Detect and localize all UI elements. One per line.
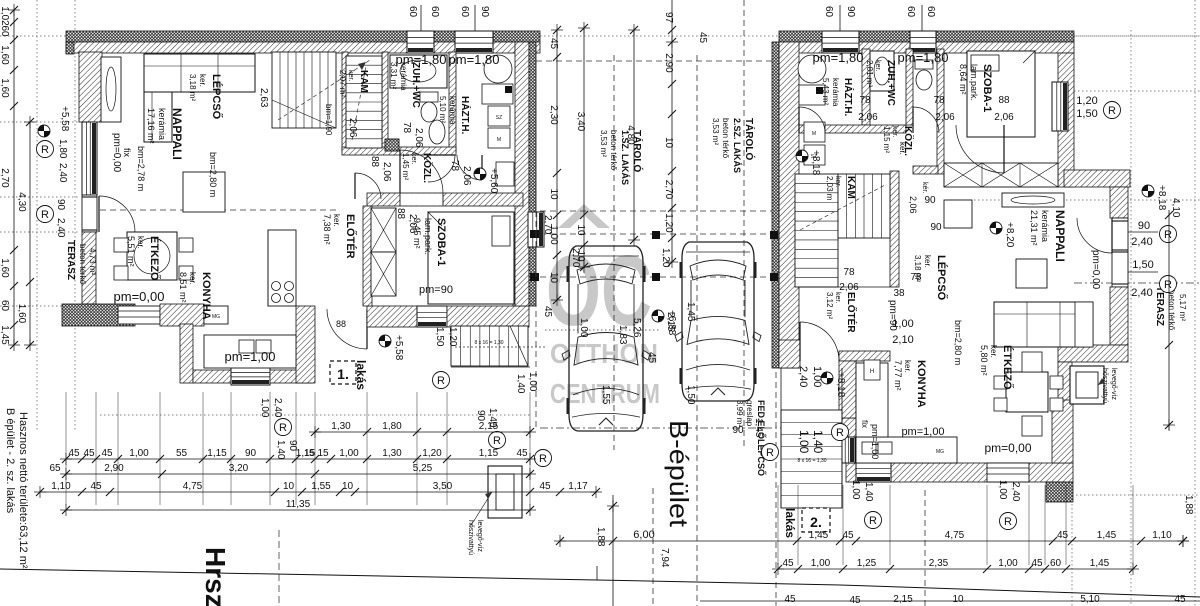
svg-text:2,07 m²: 2,07 m²: [338, 70, 347, 97]
svg-text:1,00: 1,00: [259, 398, 270, 418]
svg-text:levegő-víz: levegő-víz: [476, 520, 483, 552]
svg-text:88: 88: [998, 95, 1010, 106]
svg-text:10: 10: [283, 481, 295, 492]
svg-text:1,50: 1,50: [1132, 259, 1153, 271]
svg-text:60: 60: [0, 25, 10, 37]
coffee table right unit: [1016, 259, 1047, 288]
svg-text:90: 90: [930, 222, 942, 233]
svg-text:10: 10: [575, 224, 586, 236]
svg-text:2,35: 2,35: [929, 558, 949, 569]
svg-text:R: R: [869, 515, 877, 527]
door arc eloter right entrance: [800, 322, 839, 361]
svg-text:2,03 m: 2,03 m: [825, 176, 834, 201]
svg-text:R: R: [539, 453, 547, 465]
svg-text:7,38 m²: 7,38 m²: [322, 214, 332, 245]
svg-text:5,10 m²: 5,10 m²: [438, 96, 447, 123]
svg-text:1,50: 1,50: [685, 385, 696, 405]
wall: right unit east upper (szoba): [1058, 53, 1074, 187]
kitchen right sink: [862, 442, 876, 454]
svg-text:lam.park.: lam.park.: [423, 218, 433, 255]
dim row B right: [778, 568, 1133, 570]
svg-text:2,70: 2,70: [570, 248, 581, 268]
svg-text:5,17 m²: 5,17 m²: [1178, 294, 1187, 321]
svg-text:R: R: [41, 209, 49, 221]
svg-text:1,45: 1,45: [753, 418, 764, 438]
svg-text:4,75: 4,75: [945, 530, 965, 541]
svg-text:KAM: KAM: [358, 70, 369, 93]
svg-text:90: 90: [1138, 220, 1150, 232]
svg-text:M: M: [497, 137, 501, 143]
svg-text:78: 78: [449, 160, 460, 172]
svg-text:90: 90: [845, 6, 856, 18]
stair: left unit lower flight: [272, 52, 336, 128]
svg-text:pm=1,00: pm=1,00: [870, 424, 880, 459]
door: terasz sliding 1.00/2.40: [118, 306, 160, 324]
svg-text:2,40: 2,40: [1131, 287, 1152, 299]
svg-text:1,40: 1,40: [863, 482, 874, 502]
stair: right unit flight B: [838, 174, 890, 238]
window: left west fixed glazing: [82, 122, 97, 195]
svg-text:2.SZ. LAKÁS: 2.SZ. LAKÁS: [732, 118, 742, 173]
R circle fed.elolepcso: [762, 444, 779, 461]
dim row E left: [66, 509, 530, 511]
window: right fix pm=1.00: [841, 437, 855, 463]
svg-text:Hrsz.: Hrsz.: [200, 547, 231, 606]
svg-text:2,06: 2,06: [347, 118, 358, 138]
door arc nappali-terasz swing: [1077, 218, 1112, 253]
svg-text:HÁZT.H.: HÁZT.H.: [459, 96, 472, 135]
svg-text:90: 90: [479, 6, 490, 18]
svg-text:60: 60: [429, 6, 440, 18]
black posts on east wall: [530, 230, 539, 238]
right edge door dims horizontal: [1128, 231, 1158, 233]
svg-text:ker.: ker.: [410, 153, 417, 164]
door arc szoba right: [956, 125, 1004, 173]
svg-text:1,30: 1,30: [331, 421, 351, 432]
dotted line bottom right: [1072, 494, 1200, 496]
level marker +6.88 carport: [652, 310, 664, 322]
svg-text:1,60: 1,60: [0, 45, 10, 65]
svg-text:45: 45: [83, 448, 95, 459]
svg-text:2,06: 2,06: [839, 282, 859, 293]
stair dashed line right: [800, 185, 885, 230]
wall: terasz parapet west: [82, 232, 96, 304]
wall: kozl south right: [913, 166, 938, 174]
bed szoba-1 right unit: [967, 51, 1035, 137]
duct crosshatch box: [385, 139, 399, 151]
svg-text:8,51 m²: 8,51 m²: [178, 272, 188, 303]
svg-text:7,77 m²: 7,77 m²: [893, 360, 903, 391]
dash-dot terrace line right: [1074, 282, 1200, 284]
dim chain left edge 2: [29, 122, 31, 345]
svg-text:ZUH.+WC: ZUH.+WC: [410, 62, 421, 108]
kitchen right stove: [856, 396, 884, 424]
svg-text:2.: 2.: [810, 514, 822, 530]
heat pump left: [488, 466, 522, 518]
svg-text:1,00: 1,00: [997, 480, 1008, 500]
svg-text:levegő-víz: levegő-víz: [1110, 368, 1117, 400]
svg-text:NAPPALI: NAPPALI: [1053, 210, 1067, 262]
dim rows bottom right: row A: [560, 540, 1183, 542]
svg-text:ker.: ker.: [834, 292, 841, 303]
svg-text:bm=2,78 m: bm=2,78 m: [136, 146, 146, 191]
door arc kozl-zuh: [428, 155, 455, 182]
svg-text:60: 60: [0, 300, 10, 312]
svg-text:88: 88: [336, 319, 346, 329]
svg-text:2,40: 2,40: [57, 163, 68, 183]
svg-text:97: 97: [663, 12, 674, 24]
svg-text:+8,18: +8,18: [835, 372, 846, 398]
svg-text:2,30: 2,30: [548, 105, 559, 125]
svg-text:bm=2,80 m: bm=2,80 m: [953, 320, 963, 365]
svg-text:ELŐTÉR: ELŐTÉR: [845, 292, 858, 333]
svg-text:ker.: ker.: [989, 345, 998, 358]
svg-text:ker.: ker.: [923, 255, 932, 268]
svg-text:45: 45: [697, 32, 708, 44]
svg-text:TÁROLÓ: TÁROLÓ: [743, 118, 756, 160]
svg-text:1,00: 1,00: [797, 430, 811, 454]
svg-text:60: 60: [1050, 558, 1062, 569]
svg-text:pm=0,00: pm=0,00: [111, 133, 122, 173]
svg-text:1,20: 1,20: [660, 248, 671, 268]
svg-text:11,35: 11,35: [286, 499, 311, 510]
svg-text:2,40: 2,40: [55, 218, 66, 238]
coffee table nappali: [183, 172, 225, 212]
svg-text:1,02: 1,02: [0, 6, 10, 26]
svg-text:R: R: [279, 422, 287, 434]
svg-text:45: 45: [548, 38, 559, 50]
svg-text:4,80: 4,80: [625, 125, 636, 145]
svg-text:R: R: [437, 375, 445, 387]
svg-text:8,64 m²: 8,64 m²: [958, 64, 968, 95]
svg-text:78: 78: [401, 122, 412, 134]
sofa left unit L-shape: [144, 54, 255, 92]
svg-text:4,73 m²: 4,73 m²: [88, 248, 97, 275]
R circle bottom left 1: [275, 419, 292, 436]
car: left parking: [569, 246, 643, 431]
svg-text:45: 45: [101, 448, 113, 459]
svg-text:lam.park.: lam.park.: [969, 64, 979, 101]
svg-text:1,45: 1,45: [1097, 530, 1117, 541]
svg-text:2,40: 2,40: [1010, 482, 1021, 502]
svg-text:3,53 m²: 3,53 m²: [711, 118, 720, 145]
wardrobe eloter left unit: [371, 208, 396, 252]
svg-text:1,80: 1,80: [57, 139, 68, 159]
svg-text:1,45: 1,45: [809, 530, 829, 541]
svg-text:lakás: lakás: [783, 508, 797, 538]
wall: etkezo east: [1058, 362, 1072, 463]
level marker +5.60 left interior: [474, 168, 486, 180]
svg-text:+8,18: +8,18: [810, 150, 821, 176]
dim chain right edge: [1168, 210, 1170, 430]
svg-text:ker.: ker.: [891, 126, 898, 137]
wall: kozl/szoba divider right: [937, 49, 944, 174]
R circle right terasz 1: [1160, 226, 1177, 243]
door arc corridor left: [400, 150, 443, 193]
svg-text:5,80 m²: 5,80 m²: [979, 345, 989, 376]
door arc: entrance unit 1: [327, 309, 367, 349]
extension lines from bottom walls to dim rows: [65, 392, 67, 505]
carport posts: [652, 231, 660, 239]
stair: right unit flight A: [795, 174, 838, 287]
stair: left unit exterior steps: [451, 326, 528, 366]
window: szoba-1 right east: [1052, 82, 1068, 131]
watermark Otthon Centrum logo: [546, 204, 660, 409]
door: nappali-terasz right 90/2.40: [1112, 218, 1128, 287]
svg-text:B-épület: B-épület: [664, 420, 694, 528]
svg-text:M: M: [812, 131, 816, 137]
R circle left 1: [37, 141, 54, 158]
svg-text:lakás: lakás: [354, 360, 368, 390]
horizontal dotted refs left: [0, 35, 1200, 37]
svg-text:1,25: 1,25: [857, 558, 877, 569]
svg-text:45: 45: [68, 448, 80, 459]
svg-text:1,00: 1,00: [339, 448, 359, 459]
stair dashed direction line: [278, 60, 370, 120]
svg-text:45: 45: [1174, 594, 1186, 605]
svg-text:FED.ELŐLÉPCSŐ: FED.ELŐLÉPCSŐ: [756, 400, 767, 476]
dashed walk line ext stairs: [455, 346, 545, 348]
svg-text:pm=90: pm=90: [887, 300, 898, 331]
wall: stair/kitchen divider right: [839, 361, 856, 418]
svg-text:2,10: 2,10: [892, 334, 913, 346]
svg-text:2,63: 2,63: [258, 88, 269, 108]
svg-text:1,60: 1,60: [16, 304, 27, 324]
window: left unit top 1: [407, 31, 434, 53]
svg-text:1,40: 1,40: [515, 374, 526, 394]
svg-text:6,00: 6,00: [633, 529, 654, 541]
R circle right terasz 2: [1160, 276, 1177, 293]
svg-text:3,12 m²: 3,12 m²: [825, 292, 834, 319]
svg-text:1,00: 1,00: [129, 448, 149, 459]
stair: right unit entrance steps: [781, 410, 842, 508]
svg-text:2,90: 2,90: [663, 53, 674, 73]
svg-text:3,50: 3,50: [433, 481, 453, 492]
svg-text:beton térkő: beton térkő: [1167, 290, 1176, 331]
dim rows bottom left: row A: [315, 431, 530, 433]
svg-text:10: 10: [548, 272, 559, 284]
svg-text:R: R: [41, 144, 49, 156]
window: south pm=1.80?: [417, 306, 447, 327]
svg-text:1,10: 1,10: [1152, 530, 1172, 541]
R circle left 2: [37, 206, 54, 223]
svg-text:pm=1,80: pm=1,80: [449, 52, 500, 67]
door arc hazt right: [799, 107, 825, 133]
svg-text:1,80: 1,80: [382, 421, 402, 432]
level marker +8.20 nappali right: [990, 222, 1002, 234]
svg-text:10: 10: [663, 137, 674, 149]
kitchen stove left: [268, 230, 296, 306]
door opening corridor left: [400, 194, 443, 206]
wall: left unit top main: [66, 42, 540, 53]
wall: eloter south right: [839, 351, 890, 361]
svg-text:kerámia: kerámia: [831, 78, 840, 107]
wall: south segment A: [160, 304, 204, 326]
wc toilet left unit: [420, 92, 438, 102]
svg-text:2,70: 2,70: [0, 168, 10, 188]
door arc eloter-kam: [355, 173, 381, 199]
svg-text:pm=0,00: pm=0,00: [1090, 250, 1101, 290]
svg-text:1,20: 1,20: [447, 327, 458, 347]
shower tray right unit: [870, 51, 894, 91]
dim row B left: [66, 458, 530, 460]
svg-text:TERASZ: TERASZ: [1154, 286, 1165, 326]
svg-text:1,00: 1,00: [998, 558, 1018, 569]
svg-text:45: 45: [782, 558, 794, 569]
horizontal dashed right top: [1074, 35, 1200, 37]
svg-text:MG: MG: [212, 314, 220, 320]
svg-text:8 x 16 = 1,30: 8 x 16 = 1,30: [797, 458, 826, 464]
svg-text:2,06: 2,06: [935, 112, 955, 123]
svg-text:2,06: 2,06: [994, 112, 1014, 123]
svg-text:2,81 m²: 2,81 m²: [865, 60, 874, 87]
dim chain between units B: [583, 28, 585, 267]
wall: kitchen south 1: [193, 370, 231, 383]
armchair right unit: [944, 200, 972, 228]
svg-text:hőszivattyú: hőszivattyú: [1101, 368, 1108, 403]
wall: eloter/szoba divider: [363, 206, 372, 306]
svg-text:NAPPALI: NAPPALI: [170, 108, 184, 160]
svg-text:R: R: [766, 447, 774, 459]
svg-text:78: 78: [910, 272, 922, 283]
wall: hazt/zuh divider right: [862, 49, 870, 125]
svg-text:3,18 m²: 3,18 m²: [188, 74, 197, 101]
svg-text:1,00: 1,00: [811, 366, 823, 387]
svg-text:R: R: [1004, 516, 1012, 528]
svg-text:pm=1,80: pm=1,80: [396, 52, 447, 67]
level marker +8.18 stair: [796, 150, 808, 162]
wall: right unit top insulation: [779, 31, 1074, 42]
svg-text:1,00: 1,00: [578, 318, 589, 338]
svg-text:pm=1,80: pm=1,80: [813, 50, 864, 65]
svg-text:2,06: 2,06: [407, 214, 418, 234]
svg-text:R: R: [1164, 279, 1172, 291]
svg-text:ÉTKEZŐ: ÉTKEZŐ: [1001, 345, 1014, 390]
wall: stair east right: [890, 171, 899, 287]
svg-text:10: 10: [548, 188, 559, 200]
window: east szoba-1: [528, 212, 544, 247]
svg-text:1,45: 1,45: [0, 325, 10, 345]
wall: southeast corner: [513, 280, 529, 306]
svg-text:fix: fix: [860, 420, 869, 428]
svg-text:SZOBA-1: SZOBA-1: [435, 218, 447, 266]
svg-text:10: 10: [952, 594, 964, 605]
svg-text:ker.: ker.: [332, 214, 341, 227]
svg-text:pm=0,00: pm=0,00: [114, 289, 165, 304]
svg-text:45: 45: [849, 595, 861, 606]
svg-text:4,75: 4,75: [183, 481, 203, 492]
svg-text:ker.: ker.: [188, 272, 197, 285]
svg-text:2,70: 2,70: [542, 215, 553, 235]
svg-text:1,45 m²: 1,45 m²: [401, 153, 410, 180]
car: right parking: [682, 242, 754, 401]
svg-text:1,00: 1,00: [527, 372, 538, 392]
svg-text:45: 45: [646, 352, 657, 364]
svg-text:pm=0,00: pm=0,00: [984, 441, 1031, 455]
svg-text:KAM: KAM: [845, 176, 856, 199]
svg-text:5,10: 5,10: [1080, 594, 1100, 605]
laundry sink circle right: [798, 55, 826, 83]
wall: nappali east upper: [1110, 187, 1128, 218]
svg-text:SZ: SZ: [496, 115, 502, 121]
svg-text:45: 45: [516, 448, 528, 459]
dim chain between units A: [556, 30, 558, 300]
svg-text:OTTHON: OTTHON: [550, 338, 658, 369]
svg-text:2,40: 2,40: [1131, 236, 1152, 248]
R circle kitchen window left: [489, 432, 506, 449]
svg-text:beton térkő: beton térkő: [721, 118, 730, 159]
insulation: right unit west face: [772, 42, 779, 368]
svg-text:pm=1,00: pm=1,00: [225, 349, 276, 364]
svg-text:8 x 16 = 1,30: 8 x 16 = 1,30: [474, 340, 503, 346]
counter along west wall right kitchen: [856, 363, 888, 437]
svg-text:7,94: 7,94: [659, 548, 670, 568]
R circle right south window: [865, 512, 882, 529]
wall: right unit top main: [779, 42, 1074, 53]
svg-text:greslap: greslap: [745, 400, 754, 427]
wall: nappali/stair divider: [342, 52, 348, 152]
svg-text:90: 90: [55, 199, 66, 211]
carport dashed vertical left: [535, 61, 537, 428]
svg-text:4,10: 4,10: [1170, 198, 1181, 218]
svg-text:TERASZ: TERASZ: [65, 240, 76, 280]
wall: right unit south: [846, 463, 1073, 482]
R circle ext stairs left: [433, 372, 450, 389]
svg-text:bm=2,80 m: bm=2,80 m: [208, 152, 218, 197]
wall: zuh/hazt divider: [449, 52, 456, 152]
svg-text:78: 78: [843, 267, 855, 278]
dim row C left: [66, 473, 530, 475]
svg-text:pm=1,00: pm=1,00: [901, 426, 944, 438]
svg-text:17,16 m²: 17,16 m²: [146, 108, 156, 144]
door: right south pm=0.00: [987, 463, 1029, 482]
dim chain carport middle x672: [671, 42, 673, 262]
dotted construction lines: [36, 0, 38, 430]
wall: south segment B: [367, 306, 417, 327]
wall: bath south: [342, 147, 456, 155]
svg-text:1,10: 1,10: [51, 481, 71, 492]
svg-text:beton térkő: beton térkő: [78, 244, 87, 285]
svg-text:MG: MG: [936, 449, 944, 455]
svg-text:3,20: 3,20: [229, 463, 249, 474]
svg-text:1,60: 1,60: [0, 78, 10, 98]
svg-text:kerámia: kerámia: [1040, 210, 1050, 242]
wall: stair/zuh divider: [382, 52, 388, 152]
svg-text:+8,20: +8,20: [1004, 222, 1015, 248]
wall: left unit top insulation band: [66, 31, 540, 42]
heat pump right: [1070, 366, 1104, 404]
svg-text:45: 45: [90, 481, 102, 492]
dining table + chairs left unit: [127, 232, 177, 280]
svg-text:H: H: [870, 369, 874, 375]
svg-text:hőszivattyú: hőszivattyú: [467, 520, 474, 555]
svg-text:ÉTKEZŐ: ÉTKEZŐ: [148, 236, 161, 281]
svg-text:1,50: 1,50: [434, 327, 445, 347]
wall: kitchen south 2: [270, 370, 312, 383]
svg-text:Hasznos nettó területe:63,12 m: Hasznos nettó területe:63,12 m²: [17, 412, 29, 569]
washer boxes right: [799, 85, 825, 105]
tv sideboard right unit: [1002, 193, 1064, 207]
wall: terasz south block: [62, 304, 135, 326]
svg-text:fix: fix: [122, 148, 132, 158]
level marker +5.58 left: [38, 125, 50, 137]
svg-text:+5,60: +5,60: [488, 168, 499, 194]
svg-text:ker.: ker.: [834, 176, 841, 187]
wall: right unit west: [779, 42, 799, 368]
svg-text:+5,58: +5,58: [59, 106, 70, 132]
dining table + chairs right unit: [1006, 372, 1048, 412]
vanity under hazt: [496, 162, 514, 186]
